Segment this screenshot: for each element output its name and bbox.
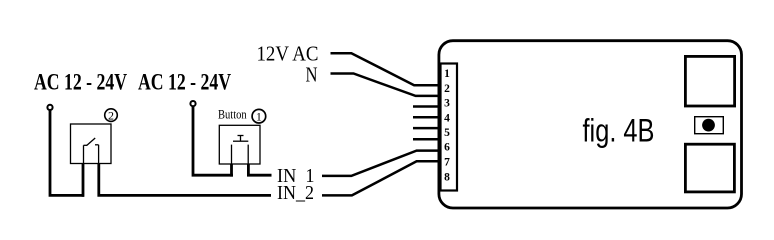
wire button S1 left lead: [230, 164, 233, 177]
svg-text:4: 4: [444, 112, 450, 124]
LED indicator window: [695, 117, 724, 134]
svg-text:IN_2: IN_2: [277, 182, 314, 204]
wire from terminal T1 down and right to switch S2 left lead: [50, 109, 84, 195]
switch S2 box: [71, 124, 112, 164]
svg-text:2: 2: [108, 108, 114, 122]
pin 4 stub wire: [413, 116, 440, 119]
wire IN_2 to connector pin 8: [322, 161, 440, 195]
relay output block K1 (top square): [685, 56, 734, 106]
svg-text:N: N: [306, 63, 318, 87]
svg-text:fig. 4B: fig. 4B: [583, 113, 655, 149]
svg-text:AC 12 - 24V: AC 12 - 24V: [138, 70, 231, 96]
svg-text:1: 1: [444, 68, 450, 80]
svg-text:Button: Button: [218, 108, 247, 122]
LED dot: [702, 119, 715, 132]
wire button S1 right lead down and right to IN 1 label: [248, 164, 271, 176]
wire 12V AC to connector pin 1: [331, 53, 441, 85]
svg-text:3: 3: [444, 98, 450, 110]
button S1 contacts, bridge and actuator: [232, 136, 249, 164]
svg-text:2: 2: [444, 83, 450, 95]
switch S2 contacts and lever: [84, 138, 99, 164]
pin 3 stub wire: [413, 105, 440, 108]
wire switch S2 right lead down to IN_2 bus: [99, 164, 271, 196]
wire IN 1 to connector pin 7: [322, 151, 440, 176]
svg-text:7: 7: [444, 156, 450, 168]
wire from terminal T2 down and right to button S1 left lead: [193, 106, 233, 175]
connector J1 strip: [441, 64, 458, 191]
wire switch S2 left lead: [82, 164, 85, 197]
button S1 box: [219, 125, 260, 164]
circled 1 designator: [252, 109, 266, 123]
controller U1 outline: [439, 41, 742, 208]
terminal T1: [47, 105, 52, 110]
wire N to connector pin 2: [331, 74, 441, 96]
svg-text:5: 5: [444, 127, 450, 139]
svg-text:6: 6: [444, 142, 450, 154]
svg-text:1: 1: [256, 110, 262, 124]
pin 6 stub wire: [413, 138, 440, 141]
svg-text:AC 12 - 24V: AC 12 - 24V: [34, 70, 127, 96]
relay output block K2 (bottom square): [685, 144, 734, 192]
pin 5 stub wire: [413, 127, 440, 130]
circled 2 designator: [105, 108, 118, 122]
terminal T2: [190, 101, 195, 106]
svg-text:8: 8: [444, 171, 450, 183]
